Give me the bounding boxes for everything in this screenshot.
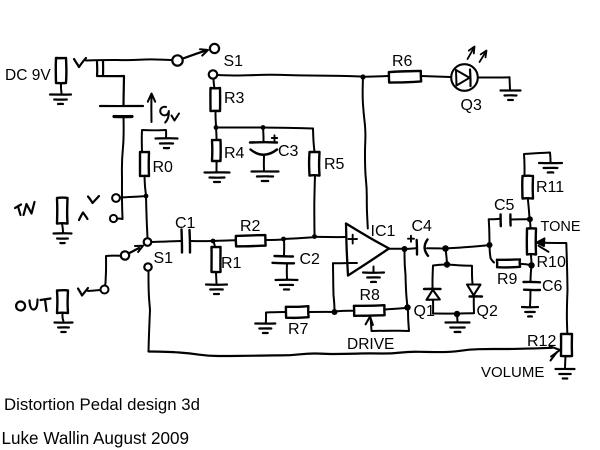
op-amp IC1 plus input: [349, 235, 358, 244]
ground: [156, 138, 178, 148]
ground: [55, 323, 73, 333]
wire: [313, 176, 316, 236]
label DRIVE: [347, 336, 394, 353]
label C4: [412, 218, 433, 235]
wire: [263, 128, 313, 129]
capacitor C1: [182, 230, 191, 253]
node tone bottom: [528, 262, 534, 268]
node R3-R4: [214, 125, 219, 130]
switch S1b throw in: [144, 238, 152, 246]
wire: [190, 240, 212, 242]
resistor R9: [497, 259, 520, 267]
capacitor C4 curved plate: [425, 240, 428, 256]
switch S1 arm: [183, 49, 208, 58]
wire: [511, 218, 528, 220]
wire: [86, 59, 171, 60]
svg-text:IC1: IC1: [371, 223, 396, 240]
wire: [489, 219, 500, 245]
wire: [216, 127, 262, 129]
svg-text:C1: C1: [175, 215, 196, 232]
resistor R2: [236, 235, 266, 247]
capacitor C4 plus plate: [416, 240, 419, 255]
resistor R3: [210, 88, 220, 111]
ground: [252, 171, 279, 181]
capacitor C3 plus plate: [250, 141, 277, 144]
wire: [335, 310, 355, 313]
label R10: [537, 254, 566, 271]
author text: [2, 429, 190, 448]
svg-text:C3: C3: [278, 143, 299, 160]
label C4 polarity: [408, 236, 414, 242]
IN tip contact: [112, 194, 120, 202]
resistor R4: [212, 140, 221, 161]
wire: [447, 265, 473, 285]
wire: [313, 129, 315, 153]
LED Q3 cathode bar: [469, 70, 472, 87]
ground: [501, 77, 521, 100]
annotation 9v arrow: [148, 94, 155, 123]
IN ring mark: [79, 213, 88, 221]
IN ring contact: [110, 215, 117, 222]
label R2: [240, 218, 261, 235]
resistor R6: [389, 71, 421, 83]
LED Q3 triangle: [456, 70, 470, 86]
wire: [145, 176, 147, 195]
wire: [433, 312, 474, 314]
op-amp IC1 minus input: [349, 262, 358, 264]
wire: [146, 196, 148, 238]
wire: [446, 245, 489, 248]
svg-text:Distortion Pedal design 3d: Distortion Pedal design 3d: [4, 395, 200, 414]
diode Q1 triangle: [427, 290, 440, 300]
wire: [531, 265, 532, 281]
svg-text:R8: R8: [360, 287, 381, 304]
svg-text:S1: S1: [154, 250, 174, 267]
label C6: [542, 278, 563, 295]
wire: [142, 130, 166, 152]
label R4: [224, 145, 245, 162]
svg-text:R12: R12: [527, 333, 556, 350]
wire: [284, 237, 313, 239]
node R2-C2: [281, 237, 286, 242]
label R5: [324, 156, 345, 173]
title text: [4, 395, 200, 414]
ground: [255, 324, 275, 334]
connector J3 OUT jack: [57, 290, 68, 313]
label C1: [175, 215, 196, 232]
annotation 9v text: [160, 107, 179, 123]
ground: [539, 163, 562, 173]
diode Q1 cathode bar: [424, 288, 441, 291]
svg-text:Q2: Q2: [477, 303, 498, 320]
wire: [214, 79, 215, 88]
switch S1b pole: [121, 251, 129, 259]
ground: [205, 172, 230, 182]
svg-text:R9: R9: [497, 271, 518, 288]
wire: [528, 199, 530, 219]
wire: [524, 153, 551, 177]
wire: [266, 239, 284, 242]
potentiometer R12: [561, 334, 572, 356]
plug tip mark: [74, 58, 86, 67]
ground: [522, 307, 538, 317]
label DC 9V: [5, 67, 51, 84]
wire: [215, 128, 218, 141]
node R8 out: [404, 304, 410, 310]
label Q1: [414, 303, 435, 320]
wire: [432, 300, 434, 314]
switch S1b throw out: [144, 263, 151, 270]
node rail junction: [360, 74, 365, 79]
label C2: [300, 251, 321, 268]
wire: [421, 76, 451, 77]
node C3 tap: [261, 125, 266, 130]
svg-text:R6: R6: [392, 53, 413, 70]
switch S1 throw open: [210, 44, 219, 53]
wire: [149, 348, 553, 356]
label R11: [536, 179, 564, 196]
svg-text:R2: R2: [240, 218, 261, 235]
wire: [427, 247, 444, 249]
battery B1 plus plate: [100, 105, 143, 107]
wire: [389, 248, 403, 250]
label R9: [497, 271, 518, 288]
wire: [120, 196, 144, 197]
resistor R1: [212, 247, 221, 272]
wire: [446, 249, 448, 264]
svg-text:S1: S1: [224, 53, 244, 70]
label OUT: [16, 299, 50, 312]
capacitor C5: [501, 215, 511, 227]
label R1: [221, 255, 242, 272]
connector J1 DC jack: [56, 58, 67, 83]
ground: [363, 267, 384, 283]
plug barrel: [97, 61, 124, 105]
wire: [478, 76, 509, 78]
wire: [385, 308, 407, 310]
label R7: [288, 321, 309, 338]
wire: [564, 356, 567, 368]
label IN: [15, 202, 35, 215]
label TONE: [541, 219, 581, 235]
op-amp IC1: [346, 224, 389, 276]
wire: [366, 75, 389, 78]
svg-text:DC 9V: DC 9V: [5, 67, 51, 84]
capacitor C6: [524, 282, 541, 290]
node input junction: [144, 194, 149, 199]
node tone in: [487, 242, 493, 248]
node diode top: [444, 261, 450, 267]
svg-text:R5: R5: [324, 156, 345, 173]
wire: [490, 245, 495, 263]
node C4 out: [442, 245, 449, 252]
wire: [266, 312, 286, 323]
label R12: [527, 333, 556, 350]
svg-text:C5: C5: [494, 197, 515, 214]
wire: [529, 222, 532, 229]
switch S1 pole: [172, 55, 182, 65]
resistor R11: [522, 176, 533, 199]
wire: [529, 290, 532, 306]
resistor R0: [140, 152, 149, 176]
label Q3: [461, 97, 482, 114]
switch S1 throw closed: [209, 70, 217, 78]
svg-text:C6: C6: [542, 278, 563, 295]
svg-text:R7: R7: [288, 321, 309, 338]
connector J2 IN jack: [57, 198, 68, 224]
label R6: [392, 53, 413, 70]
resistor R7: [286, 306, 309, 318]
wire drive wiper: [366, 311, 409, 331]
wire: [60, 83, 63, 93]
OUT tip contact: [101, 286, 109, 294]
wire: [151, 241, 181, 242]
svg-text:R10: R10: [537, 254, 566, 271]
ground: [446, 314, 470, 332]
node diode gnd: [454, 311, 460, 317]
capacitor C2: [273, 256, 295, 263]
wire ic1 power: [363, 77, 368, 229]
wire: [215, 111, 218, 126]
wire: [473, 297, 475, 314]
label S1: [224, 53, 244, 70]
svg-text:VOLUME: VOLUME: [481, 364, 544, 381]
wire: [213, 239, 236, 242]
capacitor C3 curved plate: [251, 150, 278, 155]
wire: [263, 156, 265, 171]
ground: [54, 233, 72, 243]
diode Q2 cathode bar: [470, 295, 483, 298]
potentiometer R10: [527, 228, 536, 254]
svg-text:R0: R0: [153, 159, 174, 176]
diode Q2 triangle: [467, 285, 481, 296]
wire: [530, 255, 533, 264]
switch S1b arm: [129, 246, 144, 254]
battery B1 minus plate: [114, 115, 132, 118]
wire: [148, 271, 150, 351]
svg-text:DRIVE: DRIVE: [347, 336, 394, 353]
label C5: [494, 197, 515, 214]
wire: [405, 247, 417, 250]
wire: [62, 313, 63, 322]
node tone top: [527, 216, 533, 222]
label R8: [360, 287, 381, 304]
label VOLUME: [481, 364, 544, 381]
svg-text:Luke Wallin August 2009: Luke Wallin August 2009: [2, 429, 190, 448]
wire: [405, 249, 408, 308]
svg-text:R3: R3: [224, 90, 245, 107]
ground: [276, 280, 298, 290]
wire: [433, 265, 448, 289]
wire: [315, 236, 346, 238]
wire: [214, 241, 216, 247]
node R7-R8: [332, 309, 338, 315]
wire volume wiper arrow: [550, 346, 560, 360]
ground: [50, 95, 71, 105]
label IC1: [371, 223, 396, 240]
svg-text:C4: C4: [412, 218, 433, 235]
resistor R5: [309, 152, 319, 176]
svg-text:R11: R11: [536, 179, 564, 196]
label Q2: [477, 303, 498, 320]
svg-text:Q1: Q1: [414, 303, 435, 320]
wire: [122, 117, 124, 220]
wire: [566, 243, 567, 334]
node opamp out: [402, 246, 408, 252]
wire: [309, 311, 334, 313]
label R3: [224, 90, 245, 107]
ground: [556, 369, 575, 379]
svg-text:R4: R4: [224, 145, 245, 162]
wire: [333, 262, 348, 264]
ground: [206, 285, 227, 295]
resistor R8: [354, 305, 385, 316]
LED Q3 body: [451, 64, 478, 91]
node C1-R2: [211, 239, 216, 244]
label C3: [278, 143, 299, 160]
svg-text:R1: R1: [221, 255, 242, 272]
wire: [286, 263, 288, 279]
wire: [117, 218, 122, 221]
wire: [215, 272, 218, 284]
IN tip mark: [88, 196, 99, 203]
svg-text:C2: C2: [300, 251, 321, 268]
svg-text:TONE: TONE: [541, 219, 581, 235]
wire: [283, 239, 285, 256]
label C3 polarity: [272, 135, 277, 140]
svg-text:Q3: Q3: [461, 97, 482, 114]
wire: [62, 224, 63, 233]
wire: [520, 264, 530, 265]
OUT tip mark: [78, 288, 88, 296]
wire: [262, 128, 265, 143]
wire: [333, 263, 335, 311]
LED Q3 emission arrows: [468, 47, 487, 63]
wire tone wiper: [537, 238, 567, 252]
label S1: [154, 250, 174, 267]
wire: [216, 161, 218, 172]
wire: [217, 75, 361, 77]
label R0: [153, 159, 174, 176]
node R5 tap: [312, 234, 317, 239]
wire: [105, 256, 121, 285]
wire: [88, 290, 101, 291]
